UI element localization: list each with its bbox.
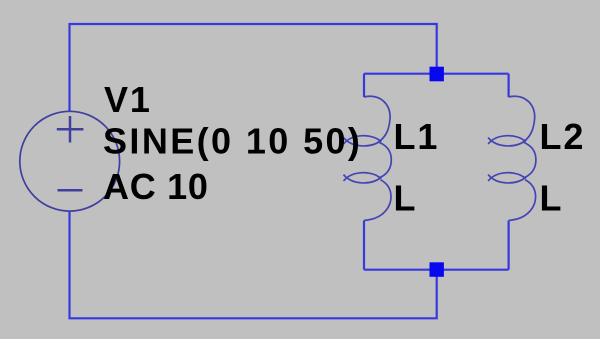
wire inductor bottom rail <box>364 269 509 271</box>
svg-text:L2: L2 <box>540 116 586 157</box>
svg-text:L: L <box>540 178 564 219</box>
wire bottom rail <box>70 211 437 319</box>
wire inductor top rail <box>364 73 509 75</box>
svg-text:AC 10: AC 10 <box>103 166 209 207</box>
svg-text:SINE(0 10 50): SINE(0 10 50) <box>103 121 362 162</box>
svg-text:L: L <box>394 178 418 219</box>
voltage source V1 <box>20 111 120 211</box>
node junction bottom <box>430 262 444 277</box>
svg-text:L1: L1 <box>394 116 440 157</box>
svg-text:V1: V1 <box>104 79 152 120</box>
inductor L2 <box>488 74 536 270</box>
wire top rail <box>70 24 437 112</box>
node junction top <box>430 67 444 82</box>
inductor L1 <box>344 74 392 270</box>
